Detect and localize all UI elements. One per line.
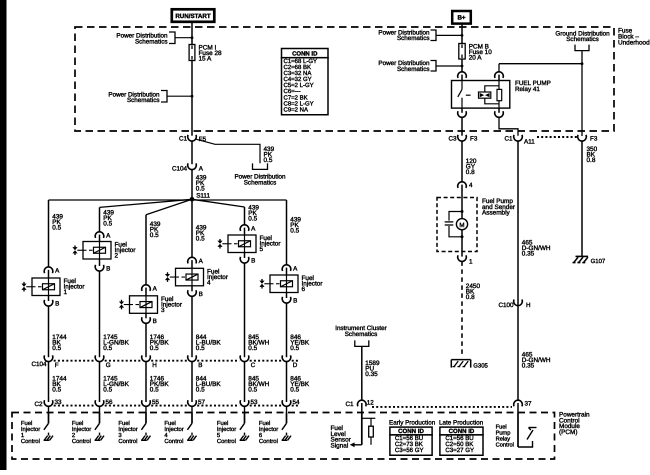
svg-text:C8=2 L-GY: C8=2 L-GY [284,100,314,107]
svg-text:0.5: 0.5 [52,387,61,394]
svg-text:0.5: 0.5 [248,216,257,223]
svg-text:2: 2 [115,253,119,260]
svg-text:Control: Control [118,438,137,445]
svg-text:Fuel: Fuel [496,423,507,430]
svg-text:D: D [293,362,298,369]
svg-text:C3=56 GY: C3=56 GY [395,447,424,454]
svg-text:0.5: 0.5 [264,157,273,164]
svg-text:0.5: 0.5 [196,345,205,352]
svg-text:F3: F3 [590,136,598,143]
svg-text:B: B [293,298,297,305]
svg-text:0.5: 0.5 [290,345,299,352]
svg-text:12: 12 [367,400,375,407]
svg-text:0.8: 0.8 [587,157,596,164]
svg-text:F: F [55,362,59,369]
svg-text:0.5: 0.5 [196,236,205,243]
svg-text:B: B [55,301,59,308]
svg-text:0.5: 0.5 [103,387,112,394]
svg-text:G305: G305 [473,363,488,370]
svg-text:Control: Control [217,438,236,445]
svg-text:Schematics: Schematics [566,36,599,43]
svg-text:0.5: 0.5 [248,387,257,394]
svg-text:C3=27 GY: C3=27 GY [445,447,474,454]
svg-text:0.8: 0.8 [466,169,475,176]
svg-text:Schematics: Schematics [127,97,160,104]
svg-text:0.5: 0.5 [150,232,159,239]
svg-text:Late Production: Late Production [439,419,484,426]
svg-text:5: 5 [260,246,264,253]
svg-text:0.35: 0.35 [365,371,378,378]
svg-text:H: H [526,302,531,309]
svg-text:37: 37 [525,401,533,408]
svg-text:C1=68 L-GY: C1=68 L-GY [284,58,318,65]
svg-text:RUN/START: RUN/START [175,13,211,20]
svg-text:0.5: 0.5 [290,387,299,394]
svg-text:S111: S111 [196,192,210,199]
svg-text:C100: C100 [498,302,514,309]
svg-text:C2=68 BK: C2=68 BK [284,64,312,71]
svg-text:1: 1 [469,258,473,265]
svg-text:Signal: Signal [331,443,349,450]
svg-text:G107: G107 [591,258,606,265]
svg-text:B: B [153,318,157,325]
svg-text:Underhood: Underhood [618,39,650,46]
svg-text:(PCM): (PCM) [559,429,577,436]
svg-text:B: B [199,291,203,298]
svg-text:C4=32 GY: C4=32 GY [284,76,312,83]
svg-text:M: M [459,222,464,229]
svg-text:C9=2 NA: C9=2 NA [284,106,309,113]
svg-text:0.5: 0.5 [103,345,112,352]
svg-text:C3=32 NA: C3=32 NA [284,70,312,77]
svg-text:0.5: 0.5 [290,228,299,235]
svg-text:Control: Control [164,438,183,445]
svg-text:Schematics: Schematics [244,179,277,186]
svg-text:C3: C3 [448,136,457,143]
svg-text:0.5: 0.5 [196,387,205,394]
svg-text:B: B [198,362,202,369]
svg-text:0.35: 0.35 [522,251,535,258]
svg-text:C6=---: C6=--- [284,88,301,95]
svg-text:C1: C1 [179,136,188,143]
svg-text:Early Production: Early Production [389,419,436,426]
svg-text:CONN ID: CONN ID [292,51,318,58]
svg-text:C1: C1 [345,401,354,408]
svg-text:C1: C1 [504,136,513,143]
svg-text:1: 1 [64,289,68,296]
svg-text:Schematics: Schematics [135,38,168,45]
svg-text:Control: Control [21,438,40,445]
svg-text:Schematics: Schematics [397,35,430,42]
svg-text:C: C [251,362,256,369]
svg-text:Schematics: Schematics [345,331,378,338]
svg-text:B: B [251,258,255,265]
svg-text:3: 3 [161,307,165,314]
svg-text:6: 6 [302,286,306,293]
svg-text:Control: Control [72,438,91,445]
svg-text:Schematics: Schematics [397,66,430,73]
svg-text:0.5: 0.5 [52,345,61,352]
svg-text:20 A: 20 A [469,55,483,62]
svg-text:C7=2 BK: C7=2 BK [284,94,308,101]
svg-text:0.5: 0.5 [150,387,159,394]
svg-text:Control: Control [496,442,514,449]
svg-text:0.5: 0.5 [150,345,159,352]
svg-text:0.5: 0.5 [52,225,61,232]
svg-text:4: 4 [207,280,211,287]
svg-text:C2: C2 [34,401,43,408]
svg-text:0.35: 0.35 [522,363,535,370]
svg-text:B+: B+ [457,15,465,22]
svg-text:15 A: 15 A [199,56,213,63]
svg-text:C5=2 L-GY: C5=2 L-GY [284,82,314,89]
svg-text:B: B [106,266,110,273]
svg-text:C104: C104 [172,165,188,172]
svg-text:Relay 41: Relay 41 [515,86,540,93]
svg-text:G: G [106,362,111,369]
svg-text:0.5: 0.5 [196,185,205,192]
svg-text:H: H [152,362,157,369]
svg-text:Assembly: Assembly [482,210,511,217]
svg-text:Relay: Relay [496,436,511,443]
svg-text:0.5: 0.5 [103,221,112,228]
svg-text:0.8: 0.8 [466,294,475,301]
svg-text:CONN ID: CONN ID [449,428,475,435]
svg-text:F3: F3 [470,136,478,143]
svg-text:A11: A11 [524,139,535,146]
svg-text:Control: Control [259,438,278,445]
svg-text:4: 4 [469,182,473,189]
svg-text:C104: C104 [31,361,47,368]
svg-text:0.5: 0.5 [248,345,257,352]
svg-text:CONN ID: CONN ID [398,428,424,435]
